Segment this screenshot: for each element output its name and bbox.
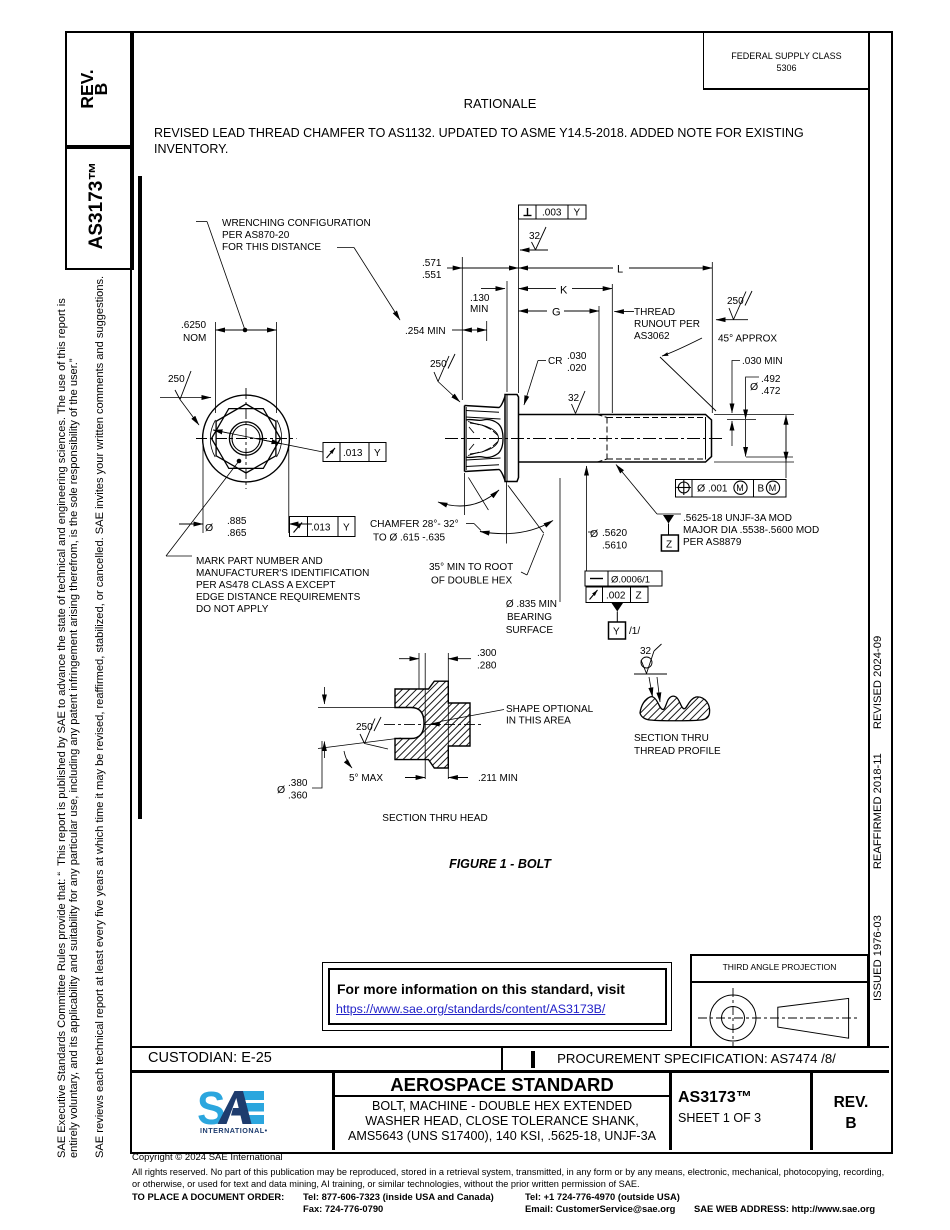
svg-text:Ø: Ø [277, 784, 285, 796]
svg-text:.360: .360 [288, 791, 308, 802]
svg-text:.030: .030 [567, 351, 587, 362]
svg-text:32: 32 [529, 231, 541, 242]
svg-text:MANUFACTURER'S IDENTIFICATION: MANUFACTURER'S IDENTIFICATION [196, 568, 369, 579]
svg-text:WRENCHING CONFIGURATION: WRENCHING CONFIGURATION [222, 218, 371, 229]
svg-text:Ø: Ø [750, 381, 758, 393]
svg-text:5° MAX: 5° MAX [349, 773, 383, 784]
svg-text:FIGURE 1 - BOLT: FIGURE 1 - BOLT [449, 857, 552, 871]
svg-text:.280: .280 [477, 661, 497, 672]
svg-text:INTERNATIONAL•: INTERNATIONAL• [200, 1126, 268, 1135]
svg-text:Z: Z [636, 591, 642, 602]
svg-text:CHAMFER 28°- 32°: CHAMFER 28°- 32° [370, 519, 459, 530]
svg-text:MIN: MIN [470, 304, 488, 315]
svg-text:.003: .003 [542, 208, 562, 219]
svg-text:.865: .865 [227, 528, 247, 539]
svg-text:.5625-18 UNJF-3A MOD: .5625-18 UNJF-3A MOD [683, 513, 792, 524]
svg-text:SURFACE: SURFACE [506, 625, 554, 636]
svg-text:PER AS478 CLASS A EXCEPT: PER AS478 CLASS A EXCEPT [196, 580, 336, 591]
svg-text:RUNOUT PER: RUNOUT PER [634, 319, 700, 330]
svg-text:DO NOT APPLY: DO NOT APPLY [196, 604, 269, 615]
svg-text:G: G [552, 307, 561, 319]
svg-text:Y: Y [343, 523, 350, 534]
svg-text:SECTION THRU HEAD: SECTION THRU HEAD [382, 813, 487, 824]
svg-text:/1/: /1/ [629, 626, 640, 637]
svg-text:.254 MIN: .254 MIN [405, 326, 446, 337]
svg-text:MARK PART NUMBER AND: MARK PART NUMBER AND [196, 556, 323, 567]
svg-text:.492: .492 [761, 374, 781, 385]
svg-text:B: B [758, 484, 765, 495]
svg-text:SHAPE OPTIONAL: SHAPE OPTIONAL [506, 704, 594, 715]
svg-text:Ø.0006/1: Ø.0006/1 [611, 575, 650, 586]
svg-text:SECTION THRU: SECTION THRU [634, 733, 709, 744]
svg-text:.6250: .6250 [181, 320, 206, 331]
svg-text:.5620: .5620 [602, 528, 627, 539]
svg-text:.013: .013 [311, 523, 331, 534]
svg-text:.001: .001 [708, 484, 728, 495]
svg-text:M: M [769, 483, 777, 493]
svg-text:.5610: .5610 [602, 541, 627, 552]
svg-text:EDGE DISTANCE REQUIREMENTS: EDGE DISTANCE REQUIREMENTS [196, 592, 361, 603]
svg-text:MAJOR DIA .5538-.5600 MOD: MAJOR DIA .5538-.5600 MOD [683, 525, 819, 536]
svg-text:K: K [560, 285, 568, 297]
svg-text:Ø .835 MIN: Ø .835 MIN [506, 599, 557, 610]
svg-text:45° APPROX: 45° APPROX [718, 334, 777, 345]
svg-text:.472: .472 [761, 386, 781, 397]
svg-text:Ø: Ø [590, 528, 598, 540]
svg-text:32: 32 [568, 393, 580, 404]
svg-text:L: L [617, 264, 623, 276]
svg-text:250: 250 [430, 359, 447, 370]
svg-text:Z: Z [666, 540, 672, 551]
svg-text:.551: .551 [422, 270, 442, 281]
svg-text:Y: Y [613, 627, 620, 638]
svg-text:.571: .571 [422, 258, 442, 269]
svg-text:.380: .380 [288, 778, 308, 789]
svg-text:BEARING: BEARING [507, 612, 552, 623]
svg-text:THREAD PROFILE: THREAD PROFILE [634, 746, 721, 757]
svg-text:M: M [736, 483, 744, 493]
svg-text:.030 MIN: .030 MIN [742, 356, 783, 367]
svg-text:THREAD: THREAD [634, 307, 675, 318]
svg-text:PER AS870-20: PER AS870-20 [222, 230, 290, 241]
svg-text:TO Ø .615 -.635: TO Ø .615 -.635 [373, 533, 446, 544]
svg-text:32: 32 [640, 646, 652, 657]
svg-text:250: 250 [356, 722, 373, 733]
svg-text:NOM: NOM [183, 333, 206, 344]
svg-text:Ø: Ø [205, 522, 213, 534]
svg-text:IN THIS AREA: IN THIS AREA [506, 716, 571, 727]
svg-text:AS3062: AS3062 [634, 331, 670, 342]
svg-text:PER AS8879: PER AS8879 [683, 537, 742, 548]
svg-text:250: 250 [168, 374, 185, 385]
svg-text:.211 MIN: .211 MIN [478, 773, 518, 784]
svg-text:Y: Y [574, 208, 581, 219]
svg-text:.130: .130 [470, 293, 490, 304]
svg-text:Y: Y [374, 448, 381, 459]
svg-text:FOR THIS DISTANCE: FOR THIS DISTANCE [222, 242, 321, 253]
svg-text:.885: .885 [227, 516, 247, 527]
svg-text:.020: .020 [567, 363, 587, 374]
svg-text:35° MIN TO ROOT: 35° MIN TO ROOT [429, 562, 513, 573]
svg-text:.013: .013 [343, 448, 363, 459]
svg-text:.002: .002 [606, 591, 626, 602]
svg-text:CR: CR [548, 356, 562, 367]
svg-text:.300: .300 [477, 648, 497, 659]
svg-text:Ø: Ø [697, 483, 705, 495]
svg-text:OF DOUBLE HEX: OF DOUBLE HEX [431, 576, 512, 587]
